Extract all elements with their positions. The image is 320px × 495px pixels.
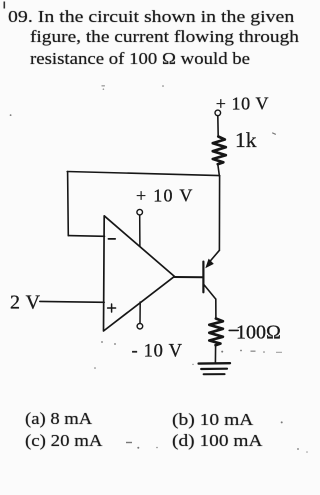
op-amp V- supply lead — [139, 302, 141, 324]
resistor R2 100ohm zigzag — [209, 319, 223, 346]
wire node A down to Q1 — [218, 176, 220, 251]
svg-text:+ 10 V: + 10 V — [136, 186, 194, 206]
wire feedback top horizontal — [67, 172, 219, 176]
ground symbol line 1 — [199, 362, 230, 365]
op-amp minus input marking — [108, 238, 115, 240]
option (d) 100 mA — [172, 432, 263, 449]
op-amp plus input marking — [108, 307, 116, 309]
svg-text:+ 10 V: + 10 V — [216, 94, 269, 114]
option (a) 8 mA — [25, 410, 92, 427]
transistor Q1 base bar — [202, 262, 204, 293]
Q1 arrow head — [205, 259, 214, 269]
wire 2V to non-inverting input — [40, 300, 104, 303]
question text line 1 — [8, 8, 294, 25]
ground symbol line 2 — [201, 368, 227, 370]
op-amp V+ supply lead — [139, 215, 141, 246]
wire R1 bottom to node A — [218, 164, 220, 176]
svg-text:- 10 V: - 10 V — [132, 341, 183, 361]
op-amp U1 triangle — [104, 216, 175, 331]
Q1 lower lead diagonal — [204, 285, 216, 299]
question text line 3 — [30, 50, 250, 67]
terminal circle op-amp V+ — [137, 209, 143, 215]
option (b) 10 mA — [172, 411, 253, 428]
wire supply to R1 — [217, 116, 219, 136]
svg-text:1k: 1k — [235, 128, 257, 152]
ground symbol line 3 — [204, 373, 225, 375]
leader dash for 100 ohm label — [229, 329, 238, 331]
wire Q1 to R2 — [215, 299, 217, 319]
terminal circle +10V (top right) — [215, 110, 221, 116]
option (c) 20 mA — [25, 432, 102, 449]
svg-text:100Ω: 100Ω — [236, 322, 281, 344]
wire op-amp output to base — [174, 276, 202, 278]
wire feedback left vertical — [67, 172, 70, 236]
wire feedback to inverting input — [68, 235, 104, 238]
Q1 upper lead diagonal — [209, 250, 219, 262]
resistor R1 1k zigzag — [213, 137, 226, 165]
wire R2 to ground — [214, 345, 216, 363]
question text line 2 — [30, 28, 299, 45]
svg-text:2 V: 2 V — [10, 292, 41, 314]
terminal circle op-amp V- — [137, 323, 143, 329]
